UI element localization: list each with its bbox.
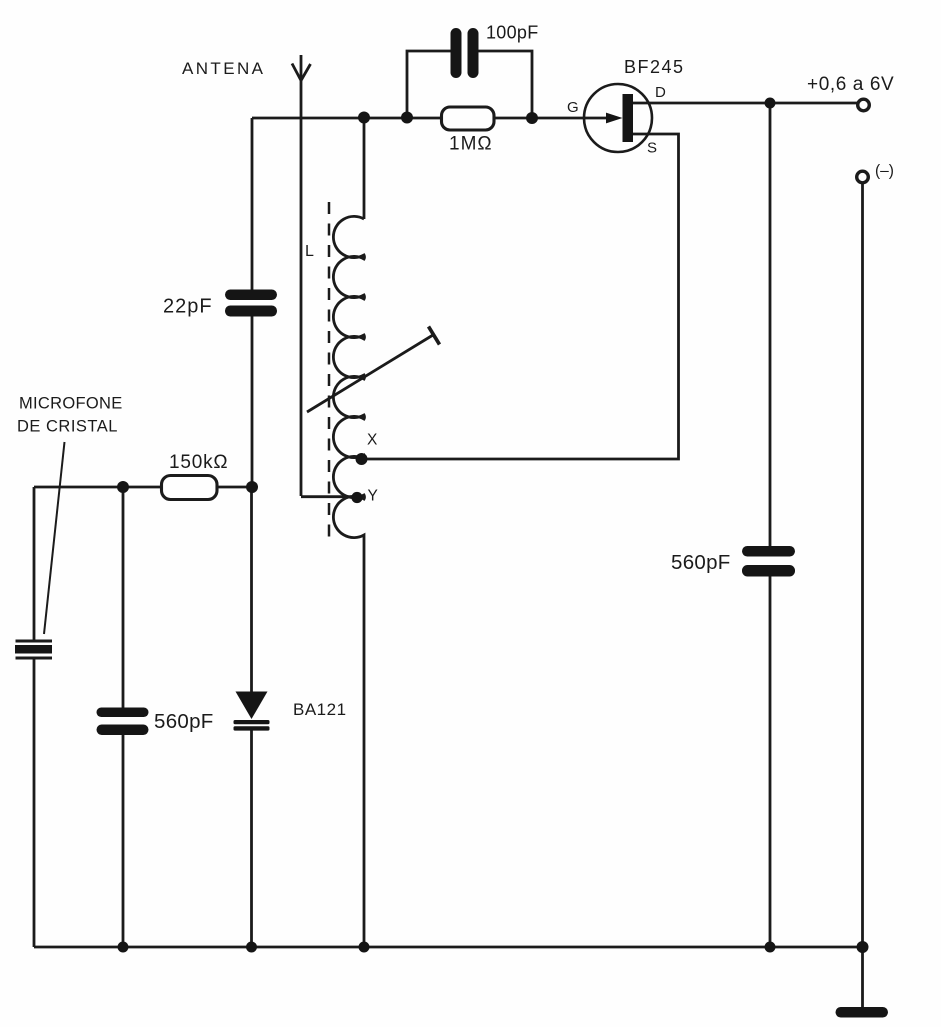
svg-text:ANTENA: ANTENA: [182, 59, 265, 78]
svg-text:DE CRISTAL: DE CRISTAL: [17, 418, 118, 436]
svg-text:Y: Y: [368, 488, 378, 505]
svg-text:22pF: 22pF: [163, 296, 213, 318]
svg-text:BF245: BF245: [624, 57, 685, 77]
svg-text:560pF: 560pF: [671, 551, 731, 574]
svg-text:150kΩ: 150kΩ: [169, 452, 228, 473]
svg-text:S: S: [647, 140, 657, 157]
svg-text:+0,6 a 6V: +0,6 a 6V: [807, 74, 894, 95]
svg-text:MICROFONE: MICROFONE: [19, 395, 123, 413]
svg-text:L: L: [305, 243, 314, 260]
svg-text:(–): (–): [875, 163, 894, 180]
svg-text:D: D: [655, 84, 666, 101]
svg-text:100pF: 100pF: [486, 23, 539, 43]
svg-text:G: G: [567, 99, 579, 116]
svg-text:560pF: 560pF: [154, 710, 214, 733]
svg-text:X: X: [367, 432, 378, 449]
svg-text:1MΩ: 1MΩ: [449, 134, 493, 155]
svg-text:BA121: BA121: [293, 700, 347, 719]
